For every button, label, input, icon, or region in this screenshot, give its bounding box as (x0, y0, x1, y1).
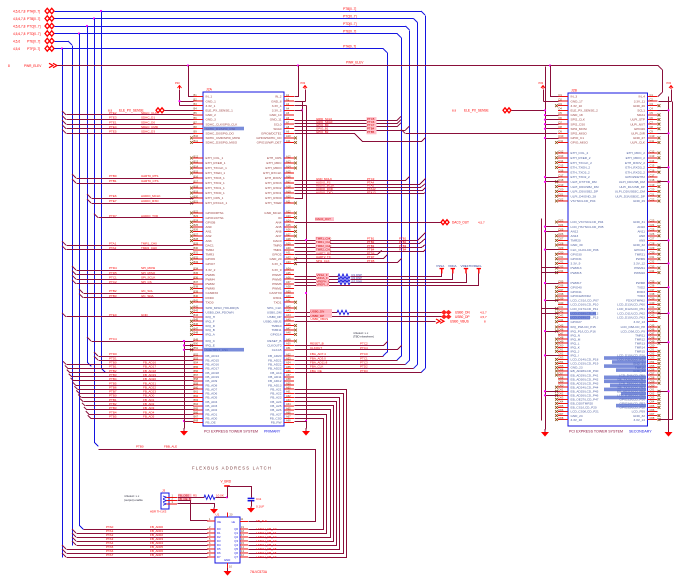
J2B left pin D13 ETH_RXER_2 (558, 157, 568, 159)
svg-text:IRQ_D: IRQ_D (206, 324, 216, 328)
J2A right pin A62 FB_A23 (284, 397, 294, 399)
svg-text:SDHC_D3/SPI0_MISO: SDHC_D3/SPI0_MISO (206, 141, 238, 145)
J2B left pin D41 LCD_D17/LCD_P11 (558, 308, 568, 310)
svg-text:A55: A55 (286, 365, 291, 369)
svg-text:D5: D5 (559, 111, 563, 115)
J2B right pin C60 EB_TX21/LCD_P53 (648, 386, 658, 388)
svg-text:B50: B50 (194, 342, 199, 346)
latch pin Q7 (240, 556, 248, 558)
J2A right pin A54 FB_AD22 (284, 363, 294, 365)
svg-text:A41: A41 (286, 299, 291, 303)
svg-text:GND_1: GND_1 (206, 99, 217, 103)
svg-text:GND_29: GND_29 (633, 199, 645, 203)
J2B right pin C51 TMR15 (648, 350, 658, 352)
rail tap left y=115 (546, 115, 559, 117)
svg-text:USB0_DP: USB0_DP (455, 315, 470, 319)
svg-text:PCI EXPRESS TOWER SYSTEM: PCI EXPRESS TOWER SYSTEM (204, 430, 258, 434)
J2A right pin A26 AN6 (284, 230, 294, 232)
svg-text:D36: D36 (559, 284, 564, 288)
svg-text:HDR TH 1X3: HDR TH 1X3 (150, 510, 167, 514)
svg-text:A20: A20 (286, 194, 291, 198)
svg-text:B12: B12 (194, 154, 199, 158)
svg-text:FLEXBUS ADDRESS LATCH: FLEXBUS ADDRESS LATCH (192, 466, 272, 471)
svg-text:VSYNC/LCD_P04: VSYNC/LCD_P04 (571, 199, 596, 203)
svg-text:SPI_MOSI: SPI_MOSI (141, 266, 155, 270)
svg-text:C3: C3 (650, 102, 654, 106)
svg-text:GND_2: GND_2 (206, 113, 217, 117)
svg-text:P03: P03 (539, 81, 544, 85)
svg-text:A8: A8 (286, 125, 290, 129)
svg-text:D49: D49 (559, 340, 564, 344)
svg-text:GND: GND (141, 313, 149, 317)
J2A right pin A42 SPI1_CLK (284, 307, 294, 309)
svg-text:AN1: AN1 (206, 230, 212, 234)
svg-text:C50: C50 (650, 344, 655, 348)
J2A left pin B31 TMR3 (193, 253, 203, 255)
J2A right pin A27 AN7 (284, 235, 294, 237)
highlight row left block SDHC_D1 (204, 127, 244, 131)
svg-text:A60: A60 (286, 386, 291, 390)
svg-text:SPI_MISO: SPI_MISO (141, 271, 156, 275)
latch pin D6 (207, 552, 215, 554)
latch pin Q5 (240, 548, 248, 550)
svg-text:OE: OE (217, 520, 221, 524)
J2A left pin B58 FB_AD9 (193, 380, 203, 382)
J2B right pin C25 AN11 (648, 230, 658, 232)
svg-text:RXD0: RXD0 (206, 296, 215, 300)
svg-text:GND_26: GND_26 (633, 104, 645, 108)
J2B left pin D1 IN_3 (558, 96, 568, 98)
svg-text:C43: C43 (650, 314, 655, 318)
svg-text:3.3V_1: 3.3V_1 (206, 104, 216, 108)
rail tap right y=110.3 (658, 110, 669, 112)
feeder wire PTE0 GND (62, 313, 66, 317)
net wire AUDIO band y=190.6 (295, 188, 426, 191)
J2B right pin C22 GND_29 (648, 200, 658, 202)
svg-text:PTE5: PTE5 (109, 130, 117, 134)
J2A right pin A4 3.3V_5 (284, 109, 294, 111)
net wire SCL band y=120.4 (295, 120, 398, 122)
svg-text:GPIO14: GPIO14 (270, 333, 281, 337)
J2B left pin D55 GND_23 (558, 367, 568, 369)
svg-text:A12: A12 (286, 154, 291, 158)
svg-text:C17: C17 (650, 173, 655, 177)
svg-text:D59: D59 (559, 379, 564, 383)
rail tap left y=300.2 (546, 300, 559, 302)
latch pin Q4 (240, 544, 248, 546)
svg-text:B3: B3 (194, 102, 198, 106)
svg-text:D27: D27 (559, 237, 564, 241)
svg-text:AUDIO_TXD: AUDIO_TXD (141, 214, 159, 218)
J2A left pin B14 ETH_TXCLK_1 (193, 167, 203, 169)
bus drop vertical x=387 (387, 53, 389, 353)
J2A left pin B54 FB_AD16 (193, 363, 203, 365)
bus wire PTD[0..7] (55, 33, 398, 35)
svg-text:GND_27: GND_27 (633, 136, 645, 140)
bus wire PTB[0..7] (55, 18, 414, 20)
J2A left pin B63 FB_AD4 (193, 401, 203, 403)
svg-text:PWM9: PWM9 (636, 257, 646, 261)
svg-text:ETH_MDIO: ETH_MDIO (266, 166, 283, 170)
net wire TMR band y=247.5 (295, 245, 426, 248)
svg-text:A15: A15 (286, 169, 291, 173)
svg-text:I2C_SCL: I2C_SCL (141, 289, 154, 293)
J2B left pin D20 ULPI_D5/USB2_DP (558, 190, 568, 192)
power flag P03 at x=305 (303, 86, 307, 90)
svg-text:D23: D23 (559, 218, 564, 222)
J2B left pin D11 GPIO_MISO (558, 142, 568, 144)
svg-text:SPI0_MISO_HOLDRQS: SPI0_MISO_HOLDRQS (206, 306, 239, 310)
feeder wire PTE5 SDHC_D3 (62, 129, 66, 133)
svg-text:B21: B21 (194, 199, 199, 203)
svg-text:C40: C40 (650, 301, 655, 305)
J2B right pin C66 LCD_P59 (648, 411, 658, 413)
FBA_AD wire y=364.3 (295, 364, 406, 366)
svg-text:C2: C2 (650, 97, 654, 101)
svg-text:TMR2_CH0: TMR2_CH0 (141, 246, 157, 250)
svg-text:B35: B35 (194, 271, 199, 275)
svg-text:D20: D20 (559, 188, 564, 192)
J2A right pin A45 USB0_VBUS (284, 320, 294, 322)
svg-text:C54: C54 (650, 360, 655, 364)
svg-text:A25: A25 (286, 223, 291, 227)
svg-text:ULPI_D6/USB2_DM: ULPI_D6/USB2_DM (571, 185, 599, 189)
J2B right pin C2 3.3V_11 (648, 100, 658, 102)
svg-text:3.3V_5: 3.3V_5 (272, 109, 282, 113)
svg-text:D24: D24 (559, 223, 564, 227)
svg-text:D12: D12 (559, 149, 564, 153)
J2B right pin C20 ULPI_D2/USB3C_DM (648, 190, 658, 192)
svg-text:AN3: AN3 (206, 239, 212, 243)
J2B right pin C68 3.3V_14 (648, 419, 658, 421)
J2B right pin C3 GND_26 (648, 105, 658, 107)
svg-text:D31: D31 (559, 255, 564, 259)
svg-text:B63: B63 (194, 398, 199, 402)
svg-text:ETH_RXER_2: ETH_RXER_2 (571, 156, 591, 160)
svg-text:ETH_CRS: ETH_CRS (267, 156, 281, 160)
svg-text:GND_10: GND_10 (269, 113, 281, 117)
svg-text:B16: B16 (194, 174, 199, 178)
net wire TMR band y=240.0 (295, 233, 426, 241)
svg-text:B61: B61 (194, 390, 199, 394)
svg-text:3.3V_12: 3.3V_12 (633, 262, 645, 266)
svg-text:PTA[0..7]: PTA[0..7] (27, 9, 40, 13)
svg-text:D4: D4 (559, 107, 563, 111)
svg-text:D25: D25 (559, 228, 564, 232)
svg-text:TMR1_CH0: TMR1_CH0 (141, 241, 157, 245)
feeder wire PTE7 AUDIO_RXD (87, 199, 91, 203)
svg-text:A66: A66 (286, 410, 291, 414)
svg-text:PWM5: PWM5 (272, 277, 282, 281)
svg-text:ELE_PX_SENSE_2: ELE_PX_SENSE_2 (571, 109, 599, 113)
J2A left pin B32 GPIO6 (193, 258, 203, 260)
svg-text:D19: D19 (559, 183, 564, 187)
svg-text:C51: C51 (650, 348, 655, 352)
svg-text:P03: P03 (301, 81, 306, 85)
svg-text:D40: D40 (559, 301, 564, 305)
svg-text:C11: C11 (256, 497, 262, 501)
svg-text:SDHC_CLK: SDHC_CLK (141, 111, 157, 115)
svg-text:CLKA5: CLKA5 (272, 348, 282, 352)
J2A left pin B7 SDHC_CLK/SPI0_CLK (193, 123, 203, 125)
svg-text:TMR11: TMR11 (272, 328, 282, 332)
J2B left pin D27 TMR20 (558, 239, 568, 241)
svg-text:PWM7: PWM7 (272, 273, 282, 277)
J2B right pin C1 IN_4 (648, 96, 658, 98)
J2B right pin C54 GND_31 (648, 362, 658, 364)
svg-text:RXD1: RXD1 (273, 296, 282, 300)
svg-text:A35: A35 (286, 271, 291, 275)
J2B right pin C14 ETH_RXDV_2 (648, 162, 658, 164)
svg-text:C10: C10 (650, 134, 655, 138)
J2A right pin A68 FB_RW (284, 421, 294, 423)
svg-text:GND_32: GND_32 (633, 243, 645, 247)
svg-text:SDHC_D3: SDHC_D3 (141, 130, 155, 134)
connector J2A outline (203, 92, 284, 426)
svg-text:VSSA: VSSA (436, 264, 445, 268)
J2A left pin B39 CANRX0 (193, 292, 203, 294)
svg-text:ULPI_CLK: ULPI_CLK (630, 141, 646, 145)
V_BRD branch to capacitor (228, 487, 252, 498)
svg-text:D11: D11 (559, 139, 564, 143)
svg-text:A2: A2 (286, 97, 290, 101)
svg-text:B19: B19 (194, 189, 199, 193)
svg-text:J3: J3 (162, 489, 166, 493)
J2A left pin B43 USB0_DM_PDOWN (193, 311, 203, 313)
pull resistor R5 (178, 494, 192, 497)
svg-text:D44: D44 (559, 318, 564, 322)
svg-text:D16: D16 (559, 169, 564, 173)
J2B right pin C30 TMR21 (648, 253, 658, 255)
svg-text:D43: D43 (559, 314, 564, 318)
svg-text:A57: A57 (286, 373, 291, 377)
J2A right pin A12 ETH_CRS (284, 157, 294, 159)
latch pin Q2 (240, 536, 248, 538)
svg-text:C55: C55 (650, 364, 655, 368)
J2B right pin C16 ETH_RXD2_2 (648, 171, 658, 173)
J2B left pin D23 LCD_VSYNC/LCD_P04 (558, 221, 568, 223)
svg-text:3.3V_9: 3.3V_9 (571, 262, 581, 266)
net wire SCL band y=130.0 (295, 130, 406, 132)
feeder wire PTE1 SDHC_D0 (62, 120, 66, 124)
svg-text:ETH_RXDV: ETH_RXDV (265, 176, 282, 180)
svg-text:GND_3: GND_3 (206, 118, 217, 122)
J2A right pin A56 FB_A10 (284, 372, 294, 374)
svg-text:VREFL_F: VREFL_F (317, 283, 330, 287)
J2B left pin D17 ETH_TXD2_2 (558, 176, 568, 178)
J2A left pin B30 TMR2 (193, 249, 203, 251)
J2B left pin D30 GPIO30 (558, 253, 568, 255)
svg-text:FB_OE: FB_OE (206, 421, 216, 425)
rail tap right y=263.4 (658, 263, 669, 265)
svg-text:A31: A31 (286, 251, 291, 255)
svg-text:A22: A22 (286, 209, 291, 213)
svg-text:C27: C27 (650, 237, 655, 241)
USB0_DP wire (295, 316, 442, 318)
svg-text:C5: C5 (650, 111, 654, 115)
J2A right pin A61 FB_A22 (284, 392, 294, 394)
svg-text:DAC1: DAC1 (206, 243, 215, 247)
svg-text:FB_AD5: FB_AD5 (143, 414, 155, 418)
latch pin D4 (207, 544, 215, 546)
svg-text:GPIO_C1: GPIO_C1 (571, 136, 585, 140)
svg-text:PTC1: PTC1 (109, 275, 117, 279)
svg-text:ULPI_D7/TXD_DM: ULPI_D7/TXD_DM (571, 180, 598, 184)
net wire GND_MCLK (295, 177, 410, 181)
J2A right pin A17 ETH_RXD3 (284, 182, 294, 184)
rail tap left y=395.3 (546, 395, 559, 397)
feeder wire PTB0 UART0_RTS (72, 174, 76, 178)
svg-text:C68: C68 (650, 416, 655, 420)
J2B right pin C52 LCD_D10/LCD_P16 (648, 354, 658, 356)
svg-text:A10: A10 (286, 134, 291, 138)
svg-text:C39: C39 (650, 297, 655, 301)
FB_AD fan wires left (63, 361, 66, 364)
J2B right pin C64 GPIO34/LCD_P57 (648, 402, 658, 404)
svg-text:USB0_VBUS: USB0_VBUS (450, 319, 469, 323)
svg-text:C25: C25 (650, 228, 655, 232)
J2A left pin B24 GPIOB (193, 221, 203, 223)
svg-text:C58: C58 (650, 375, 655, 379)
svg-text:C65: C65 (650, 404, 655, 408)
feeder wire PTC1 SPI_SCLK (72, 275, 76, 279)
svg-text:C35: C35 (650, 279, 655, 283)
J2B left pin D51 IRQ_J (558, 350, 568, 352)
J2A left pin B59 FB_AD8 (193, 384, 203, 386)
svg-text:SDHC_D1: SDHC_D1 (141, 116, 155, 120)
svg-text:PTB[0..7]: PTB[0..7] (27, 17, 40, 21)
J2A right pin A35 PWM7 (284, 274, 294, 276)
latch pin D7 (207, 556, 215, 558)
svg-text:PWM10: PWM10 (634, 271, 645, 275)
J2A right pin A48 GPIO14 (284, 333, 294, 335)
J2B right pin C31 PWM9 (648, 258, 658, 260)
connector J2B outline (568, 93, 648, 426)
svg-text:(TBD elsewhere): (TBD elsewhere) (353, 335, 374, 339)
right block left rail (545, 67, 547, 430)
svg-text:A62: A62 (286, 394, 291, 398)
J2B left pin D8 SPI2_MOSI (558, 128, 568, 130)
rail tap left y=181.8 (546, 181, 559, 183)
svg-text:D67: D67 (559, 412, 564, 416)
svg-text:A42: A42 (286, 304, 291, 308)
net wire UART band (295, 251, 382, 255)
J2B right pin C55 TMR16 (648, 367, 658, 369)
J2B left pin D50 IRQ_K (558, 346, 568, 348)
svg-text:0.1UF: 0.1UF (256, 505, 264, 509)
rail tap left y=231.2 (546, 231, 559, 233)
svg-text:D63: D63 (559, 396, 564, 400)
svg-text:ETH_CRS_1: ETH_CRS_1 (206, 196, 224, 200)
J2A left pin B60 FB_AD7 (193, 388, 203, 390)
svg-text:GND_30: GND_30 (571, 243, 583, 247)
svg-text:B25: B25 (194, 223, 199, 227)
svg-text:GPIO7: GPIO7 (206, 262, 216, 266)
J2B right pin C19 ULPI_D1/USB_DP (648, 186, 658, 188)
latch pin Q6 (240, 552, 248, 554)
svg-text:C67: C67 (650, 412, 655, 416)
svg-text:B24: B24 (194, 219, 199, 223)
J2B left pin D48 IRQ_M (558, 338, 568, 340)
svg-text:D8: D8 (559, 125, 563, 129)
svg-text:A40: A40 (286, 294, 291, 298)
svg-text:ETH_RXCLK: ETH_RXCLK (263, 171, 282, 175)
bus wire PTA[0..7] (55, 11, 422, 13)
J2B right pin C56 GND_33 (648, 370, 658, 372)
capacitor C11 (248, 497, 255, 499)
J2A right pin A43 USB0_DM (284, 311, 294, 313)
J2A right pin A11 GPIO10/WP_DET (284, 142, 294, 144)
svg-text:ETH_RXER_1: ETH_RXER_1 (206, 161, 226, 165)
J2A right pin A25 AN5 (284, 226, 294, 228)
J2B left pin D26 AN13 (558, 235, 568, 237)
svg-text:D68: D68 (559, 416, 564, 420)
svg-text:B52: B52 (194, 352, 199, 356)
svg-text:C34: C34 (650, 269, 655, 273)
J2A left pin B1 IN_1 (193, 96, 203, 98)
svg-text:GPIO31: GPIO31 (571, 257, 582, 261)
svg-text:GPIO27: GPIO27 (571, 320, 582, 324)
svg-text:B36: B36 (194, 276, 199, 280)
J2A right pin A1 IN_2 (284, 96, 294, 98)
J2B left pin D16 ETH_TXD3_2 (558, 171, 568, 173)
J2B left pin D33 PWM13 (558, 267, 568, 269)
svg-text:PTD5: PTD5 (109, 271, 117, 275)
analog supply resistors and flags VSSA VDDA VREFH VREFL (295, 276, 339, 278)
svg-text:B33: B33 (194, 260, 199, 264)
svg-text:(output) enable: (output) enable (124, 498, 143, 502)
J2B right pin C44 3.3V_13 (648, 321, 658, 323)
feeder wire PTE4 SDHC_CMD (62, 125, 66, 129)
svg-text:A46: A46 (286, 322, 291, 326)
svg-text:D18: D18 (559, 178, 564, 182)
power flag P03 at x=179.5 (178, 86, 182, 90)
svg-text:ETH_RXD2: ETH_RXD2 (265, 186, 281, 190)
svg-text:4,5,6,7,8: 4,5,6,7,8 (13, 9, 26, 13)
J2B right pin C45 LCD_D8/LCD_P8 (648, 326, 658, 328)
J2B right pin C27 AN9 (648, 239, 658, 241)
feeder wire PTD5 SPI_MISO (72, 271, 76, 275)
net wire AUDIO band y=193.9 (295, 193, 426, 194)
svg-text:B30: B30 (194, 246, 199, 250)
J2B left pin D59 EB_AD31/LCD_P43 (558, 382, 568, 384)
rail tap left y=124.1 (546, 124, 559, 126)
svg-text:SDHC_D0/SPI0_DO: SDHC_D0/SPI0_DO (206, 132, 235, 136)
svg-text:A48: A48 (286, 331, 291, 335)
svg-text:ETH_TXD1_1: ETH_TXD1_1 (206, 186, 226, 190)
svg-text:AN5: AN5 (275, 225, 281, 229)
svg-text:J2B: J2B (571, 89, 578, 93)
J2B right pin C9 ULPI_DIR (648, 132, 658, 134)
svg-text:C57: C57 (650, 371, 655, 375)
J2B left pin D49 IRQ_L (558, 342, 568, 344)
svg-text:PWM11: PWM11 (634, 266, 645, 270)
feeder wire PTD4 SPI_MOSI (72, 266, 76, 270)
J2B right pin C41 LCD_D12/LCD_P61 (648, 308, 658, 310)
svg-text:PTB[0..7]: PTB[0..7] (343, 7, 356, 11)
svg-text:B34: B34 (194, 266, 199, 270)
svg-text:A24: A24 (286, 219, 291, 223)
J2A left pin B49 IRQ_C (193, 340, 203, 342)
svg-text:D26: D26 (559, 232, 564, 236)
svg-text:B49: B49 (194, 337, 199, 341)
J2B left pin D40 LCD_D16/LCD_P10 (558, 304, 568, 306)
J2A left pin B12 ETH_COL_1 (193, 157, 203, 159)
bus drop PTC left (88, 27, 92, 367)
svg-text:J2A: J2A (206, 88, 213, 92)
J2A right pin A30 TMR1 (284, 249, 294, 251)
bus wire PTE[0..7] (55, 41, 69, 43)
